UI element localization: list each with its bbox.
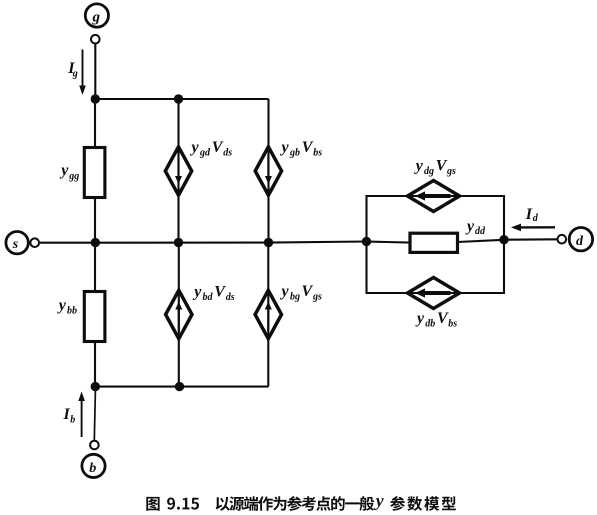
svg-text:g: g	[92, 10, 101, 26]
wire right-net bottom branch	[367, 240, 505, 293]
svg-text:I b: I b	[63, 406, 76, 426]
wire middle to resistor ydd	[367, 242, 411, 243]
wire top rail	[95, 98, 268, 100]
wire branch 3 upper	[267, 99, 269, 243]
node bottom-left junction	[91, 382, 100, 391]
current arrow Ig	[79, 50, 86, 96]
current source ybg Vgs	[255, 290, 281, 338]
terminal d open contact	[558, 235, 567, 244]
node s-col3	[264, 238, 273, 247]
wire branch 2 lower	[178, 243, 180, 387]
resistor ydd	[410, 233, 458, 252]
node bottom-middle junction	[175, 382, 184, 391]
svg-text:I g: I g	[67, 60, 78, 80]
resistor ygg	[84, 148, 105, 198]
terminal b	[82, 454, 105, 477]
node top-middle junction	[174, 94, 183, 103]
current arrow Ib	[78, 392, 85, 438]
current source ydb Vbs	[408, 278, 460, 309]
wire resistor ygg to s-rail	[94, 198, 96, 243]
terminal g	[85, 4, 108, 27]
current source ygd Vds	[165, 147, 191, 195]
wire s rail	[39, 242, 367, 243]
wire right-net top branch	[367, 196, 505, 242]
svg-text:b: b	[89, 461, 96, 476]
current source ybd Vds	[166, 290, 192, 338]
svg-text:d: d	[576, 234, 584, 249]
wire branch 3 lower	[267, 243, 269, 387]
resistor ybb	[84, 292, 105, 342]
wire right node to d contact	[504, 238, 558, 240]
wire branch 2 upper	[177, 99, 179, 243]
node s-col2	[174, 238, 183, 247]
node right-net left	[362, 237, 371, 246]
wire s-rail to resistor ybb	[94, 243, 96, 292]
current arrow Id	[511, 224, 555, 232]
terminal s open contact	[30, 238, 39, 247]
wire node to resistor ygg	[94, 99, 96, 148]
svg-text:s: s	[12, 237, 19, 252]
terminal d	[569, 228, 592, 251]
wire resistor ybb to bottom rail	[94, 342, 96, 387]
terminal b open contact	[90, 441, 99, 450]
terminal g open contact	[91, 35, 100, 44]
wire resistor ydd to right node	[458, 240, 505, 242]
wire bottom node to b contact	[94, 387, 95, 441]
current source ydg Vgs	[408, 181, 460, 212]
wire bottom rail	[95, 386, 268, 388]
terminal s	[6, 232, 28, 254]
caption 图 9.15 以源端作为参考点的一般 y 参数模型	[146, 496, 456, 511]
node top-left junction	[91, 94, 100, 103]
node s-col1	[91, 238, 100, 247]
wire g to top node	[94, 44, 96, 100]
node right-net right	[499, 235, 508, 244]
current source ygb Vbs	[255, 147, 281, 195]
